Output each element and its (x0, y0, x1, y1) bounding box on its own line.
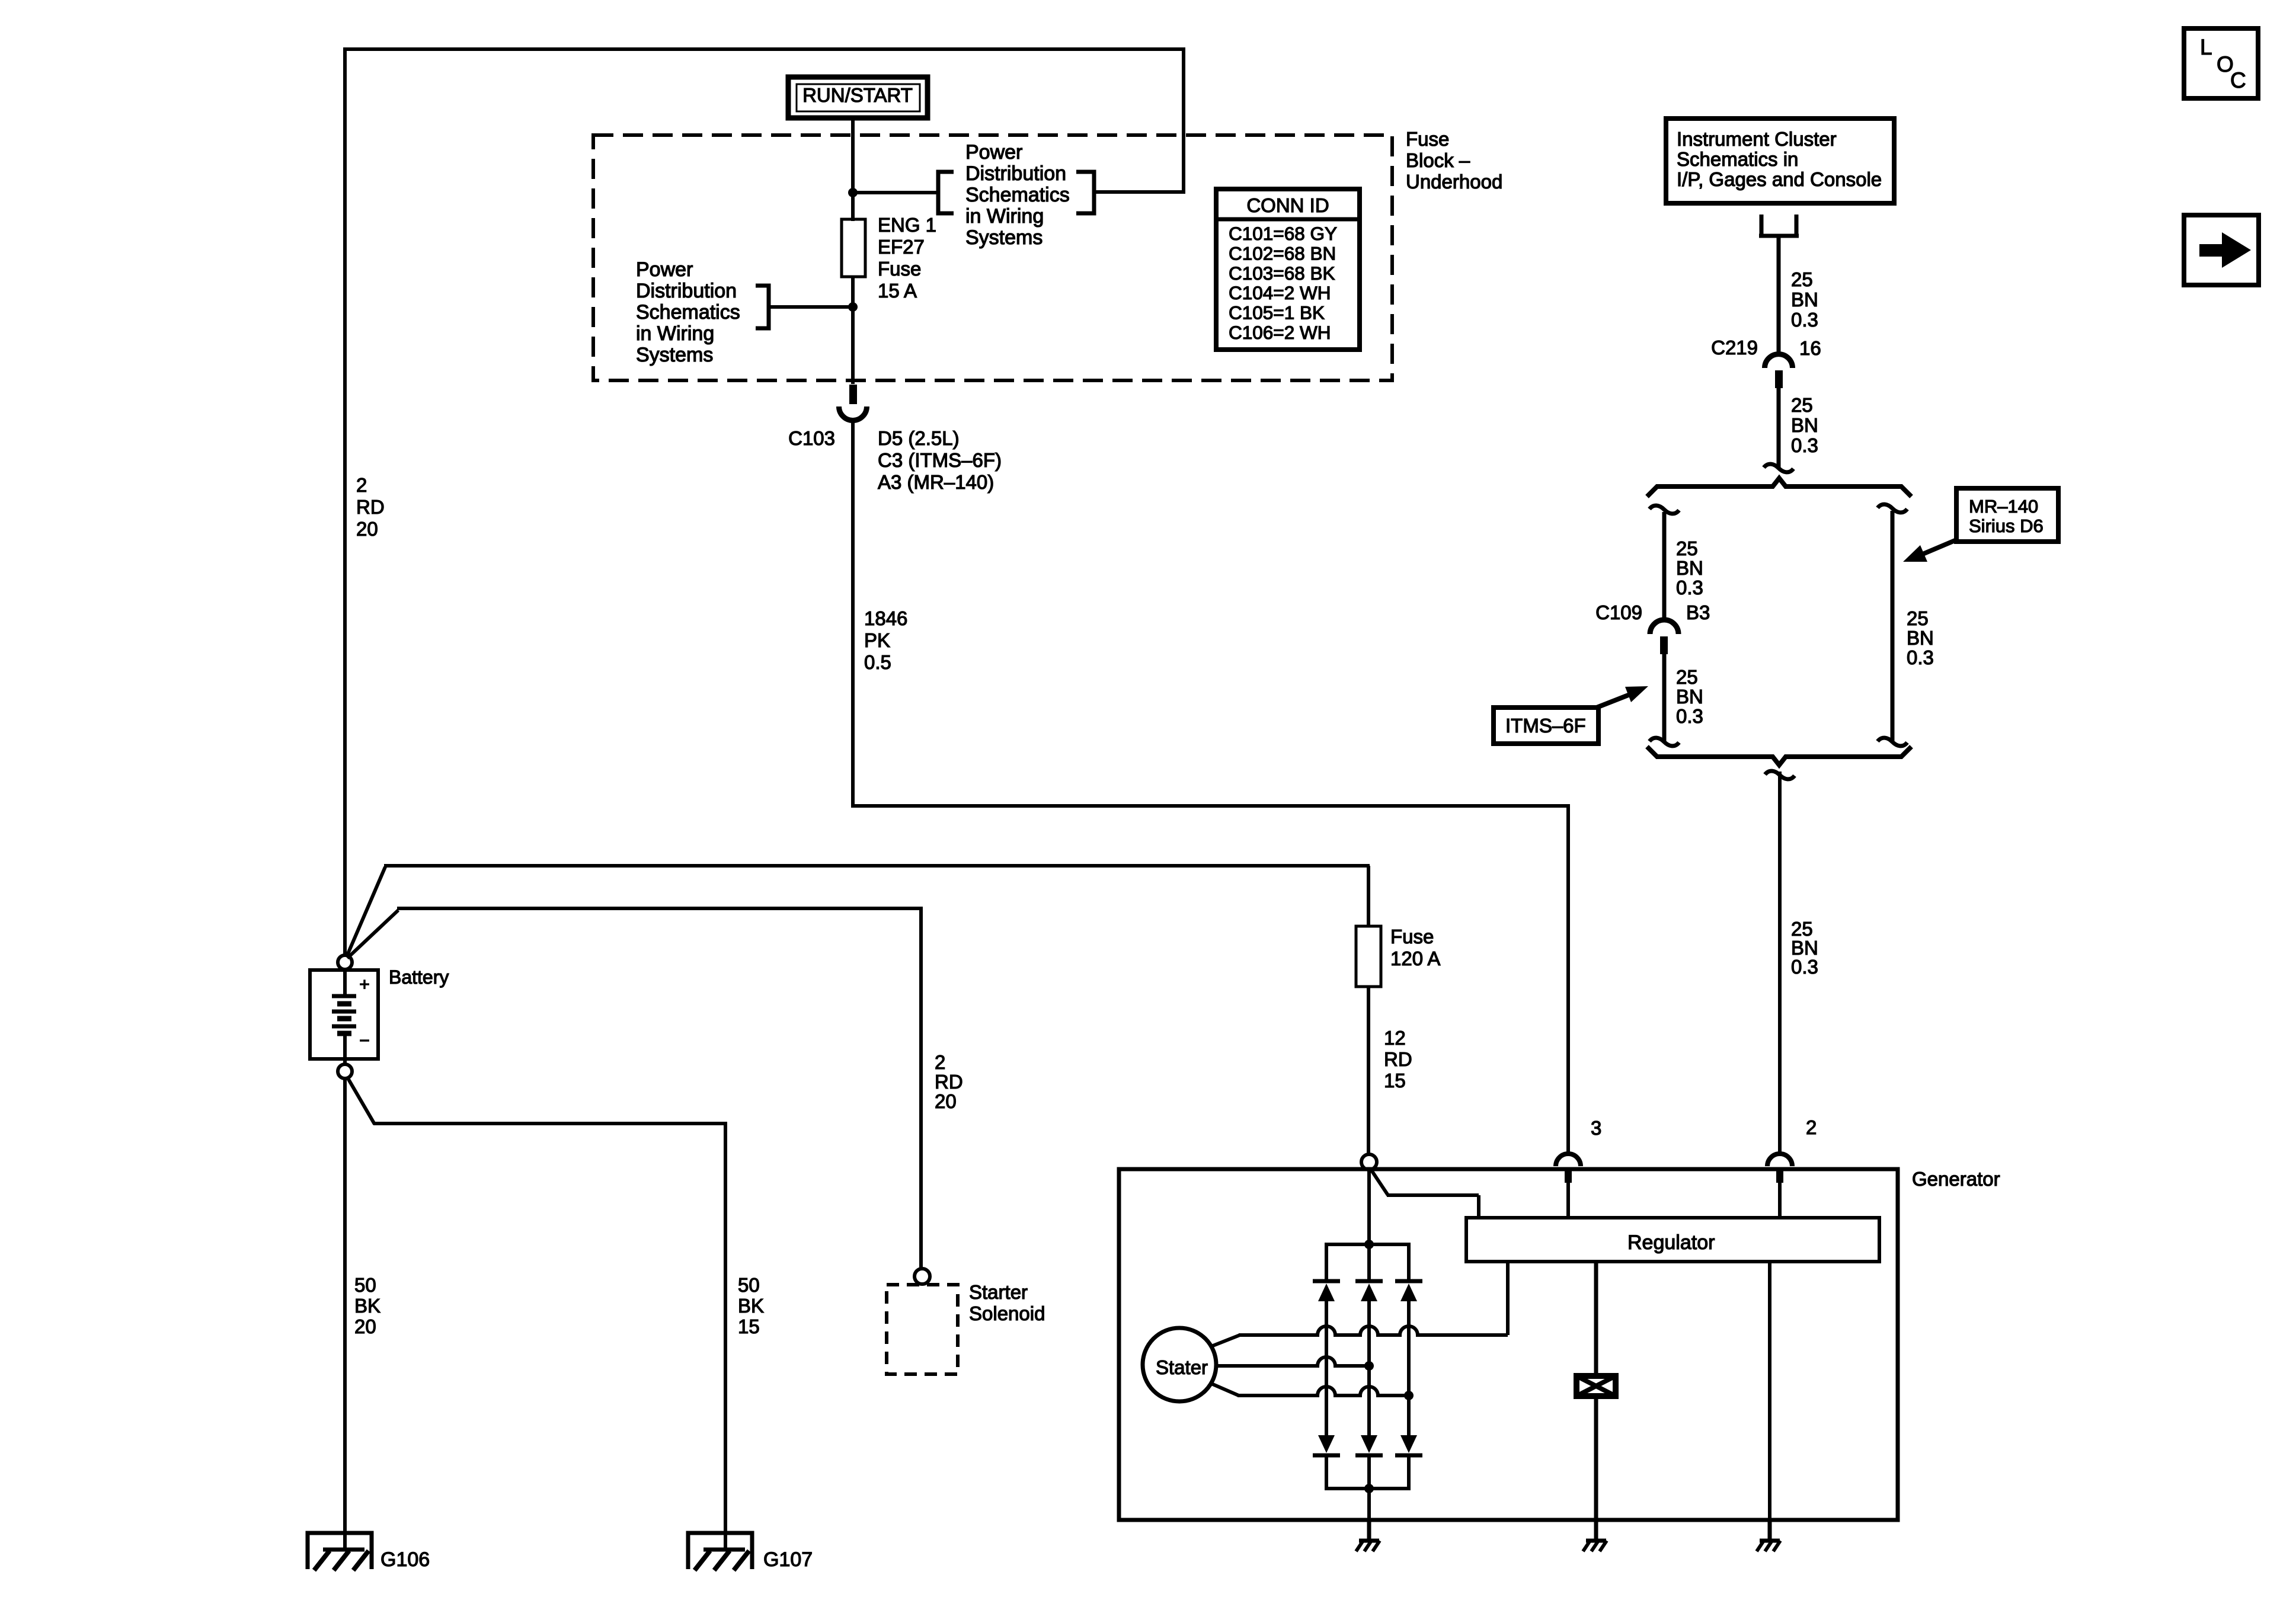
connector pin 3 socket arc (1556, 1154, 1581, 1166)
field coil (slip ring) symbol (1576, 1376, 1616, 1396)
svg-text:0.5: 0.5 (864, 651, 891, 673)
splice hook below bottom brace (1765, 771, 1795, 779)
svg-text:RD: RD (935, 1071, 963, 1093)
svg-text:C102=68 BN: C102=68 BN (1229, 242, 1336, 264)
wire - harness to generator pin 2 (1778, 772, 1782, 1155)
box Instrument Cluster Schematics (1666, 119, 1894, 203)
label Instrument Cluster Schematics in I/P, Gages and Console (1677, 128, 1882, 190)
svg-text:MR–140: MR–140 (1969, 496, 2038, 517)
wire - RUN/START drop into fuse block (851, 118, 855, 221)
svg-text:Schematics: Schematics (636, 301, 740, 324)
label 1846 PK 0.5 (864, 607, 907, 673)
svg-text:Fuse: Fuse (1390, 926, 1434, 948)
svg-text:Instrument Cluster: Instrument Cluster (1677, 128, 1837, 150)
svg-text:0.3: 0.3 (1676, 577, 1703, 598)
svg-text:16: 16 (1799, 337, 1821, 359)
rectifier top bus (1326, 1244, 1409, 1279)
battery box (310, 970, 378, 1059)
svg-text:0.3: 0.3 (1791, 956, 1818, 978)
wire - through fuse to lower junction (851, 277, 855, 384)
svg-text:A3 (MR–140): A3 (MR–140) (878, 471, 994, 493)
wire - C219 to harness brace (1777, 388, 1781, 469)
connector pin 2 pin (1776, 1169, 1783, 1183)
connector C219 socket arc (1765, 354, 1793, 368)
svg-text:Fuse: Fuse (1406, 128, 1449, 150)
splice hook right branch top (1878, 504, 1907, 513)
label RUN/START (802, 84, 913, 106)
svg-text:12: 12 (1384, 1027, 1406, 1049)
svg-text:Regulator: Regulator (1627, 1231, 1715, 1254)
svg-text:Power: Power (636, 258, 693, 281)
switch RUN/START outer box (788, 77, 928, 118)
diode bottom left (1313, 1435, 1340, 1455)
svg-text:Schematics in: Schematics in (1677, 148, 1798, 170)
wire - top feed bus from battery to RUN/START branch (343, 47, 1185, 51)
label Fuse Block - Underhood (1406, 128, 1502, 193)
wire left branch upper (25 BN 0.3) (1662, 512, 1667, 620)
svg-text:Underhood: Underhood (1406, 171, 1502, 193)
svg-text:C103=68 BK: C103=68 BK (1229, 263, 1335, 284)
label CONN ID (1246, 194, 1329, 216)
label C109 (1595, 601, 1642, 623)
svg-text:G107: G107 (763, 1548, 813, 1571)
label 25 BN 0.3 (below C219) (1791, 394, 1818, 456)
diode top left (1313, 1281, 1340, 1301)
wire - battery box to negative terminal (343, 1059, 347, 1065)
svg-text:Generator: Generator (1912, 1168, 2000, 1190)
svg-text:BN: BN (1907, 627, 1934, 649)
label 25 BN 0.3 (right branch) (1907, 607, 1934, 668)
regulator box (1466, 1218, 1879, 1262)
node - junction at second power distribution tap (848, 302, 858, 312)
bracket - power distribution (right) (1076, 172, 1094, 213)
fuse 120 A body (1356, 926, 1381, 987)
svg-text:C219: C219 (1711, 337, 1758, 359)
label 12 RD 15 (1384, 1027, 1412, 1092)
connector C109 pin (1660, 636, 1668, 654)
svg-text:L: L (2200, 35, 2212, 59)
connector C219 pin (1775, 370, 1783, 388)
connector C109 socket arc (1650, 620, 1678, 634)
stator circle (1143, 1328, 1216, 1401)
wire - phase A to regulator (1506, 1260, 1510, 1335)
svg-text:C3 (ITMS–6F): C3 (ITMS–6F) (878, 449, 1002, 471)
wire - drop to generator pin 3 (1566, 806, 1570, 1155)
wire pin 2 to regulator (1778, 1183, 1782, 1219)
svg-text:Power: Power (965, 141, 1022, 164)
label 25 BN 0.3 (left branch lower) (1676, 666, 1703, 727)
svg-text:15 A: 15 A (878, 280, 917, 302)
legend arrow box (2184, 215, 2259, 285)
svg-text:3: 3 (1591, 1117, 1601, 1139)
label C219 (1711, 337, 1758, 359)
svg-text:0.3: 0.3 (1907, 646, 1934, 668)
bracket - power distribution (left) (938, 172, 954, 213)
label 50 BK 15 (738, 1274, 764, 1337)
box MR-140 Sirius D6 (1956, 488, 2058, 542)
connector pin 2 socket arc (1767, 1154, 1792, 1166)
svg-text:50: 50 (354, 1274, 376, 1296)
connector C103 pin (849, 385, 857, 404)
label connector id rows (1229, 223, 1337, 343)
svg-text:20: 20 (356, 518, 378, 540)
label ITMS-6F (1505, 715, 1586, 737)
svg-text:BN: BN (1676, 557, 1703, 579)
svg-text:Sirius D6: Sirius D6 (1969, 516, 2044, 536)
svg-text:BK: BK (738, 1295, 764, 1317)
ground G106 (308, 1533, 372, 1570)
battery negative terminal eyelet (338, 1064, 352, 1078)
label Battery (389, 966, 449, 988)
label pin 16 (1799, 337, 1821, 359)
legend letter L (2200, 35, 2212, 59)
svg-text:Stater: Stater (1156, 1356, 1208, 1378)
label Fuse 120 A (1390, 926, 1440, 969)
svg-text:0.3: 0.3 (1791, 309, 1818, 331)
arrow from MR-140 box to right branch (1903, 540, 1956, 562)
wire - regulator right leg to case ground (1768, 1262, 1771, 1523)
svg-text:D5 (2.5L): D5 (2.5L) (878, 427, 960, 449)
svg-text:C109: C109 (1595, 601, 1642, 623)
wire - feed down to starter solenoid (919, 907, 923, 1269)
svg-text:25: 25 (1907, 607, 1929, 629)
splice hook left branch bottom (1649, 738, 1679, 746)
svg-text:1846: 1846 (864, 607, 907, 629)
svg-text:120 A: 120 A (1390, 948, 1440, 969)
svg-text:−: − (359, 1031, 370, 1051)
label - Power Distribution Schematics in Wiring Systems (left note) (636, 258, 740, 366)
wire pin 3 to regulator (1566, 1183, 1570, 1219)
starter solenoid terminal eyelet (914, 1269, 930, 1284)
fuse ENG 1 EF27 15A body (842, 219, 865, 277)
wire - 120A fuse to generator eyelet (12 RD 15) (1367, 987, 1370, 1155)
label G106 (380, 1548, 430, 1571)
svg-text:50: 50 (738, 1274, 760, 1296)
svg-text:15: 15 (1384, 1070, 1406, 1092)
wire - second bracket to fuse wire (769, 305, 853, 309)
svg-text:Systems: Systems (965, 226, 1043, 249)
svg-text:20: 20 (935, 1090, 957, 1112)
label Regulator (1627, 1231, 1715, 1254)
svg-text:Block –: Block – (1406, 149, 1470, 171)
connector exit tab below instrument cluster (1759, 215, 1799, 236)
node - junction at power distribution tap (848, 188, 858, 197)
svg-text:25: 25 (1676, 666, 1698, 688)
wire - feed down to 120A fuse (1367, 866, 1370, 926)
svg-text:2: 2 (1806, 1116, 1817, 1138)
wire - eyelet down to rectifier top bus (1367, 1170, 1371, 1246)
connector pin 3 pin (1565, 1169, 1572, 1183)
svg-text:B3: B3 (1686, 601, 1710, 623)
legend arrow (2199, 232, 2251, 268)
diode bottom middle (1355, 1435, 1383, 1455)
label - Power Distribution Schematics in Wiring Systems (right note) (965, 141, 1070, 249)
svg-text:Starter: Starter (969, 1281, 1028, 1303)
table CONN ID header rule (1216, 217, 1360, 222)
label - 2 RD 20 (battery feed) (356, 474, 385, 540)
wire - battery negative branch to G107 (347, 1077, 727, 1124)
label pin 2 (1806, 1116, 1817, 1138)
arrow from ITMS-6F box to left branch (1597, 686, 1648, 708)
svg-text:Solenoid: Solenoid (969, 1302, 1045, 1324)
svg-text:20: 20 (354, 1315, 376, 1337)
svg-text:in Wiring: in Wiring (636, 322, 714, 345)
label C103 cavities D5 C3 A3 (878, 427, 1002, 493)
splice hook left branch top (1649, 505, 1679, 514)
ground - rectifier (1356, 1521, 1380, 1551)
label Generator (1912, 1168, 2000, 1190)
label battery - polarity (359, 1031, 370, 1051)
connector C103 socket arc (839, 406, 867, 421)
wire - left column through windings (1325, 1301, 1328, 1435)
ground - field (1583, 1521, 1607, 1551)
svg-text:+: + (359, 975, 370, 994)
svg-text:C106=2 WH: C106=2 WH (1229, 322, 1331, 343)
wire - battery negative to G106 (343, 1078, 347, 1550)
svg-text:EF27: EF27 (878, 236, 925, 258)
fuse block - underhood dashed box (593, 135, 1392, 380)
wire 1846 PK 0.5 horizontal run (853, 804, 1570, 808)
svg-text:BK: BK (354, 1295, 380, 1317)
svg-text:RUN/START: RUN/START (802, 84, 913, 106)
splice hook right branch bottom (1878, 738, 1907, 746)
svg-text:0.3: 0.3 (1791, 434, 1818, 456)
label cavity B3 (1686, 601, 1710, 623)
label G107 (763, 1548, 813, 1571)
ground G107 (688, 1533, 752, 1570)
svg-text:C104=2 WH: C104=2 WH (1229, 282, 1331, 303)
node - bottom bus junction (1364, 1484, 1374, 1493)
svg-text:0.3: 0.3 (1676, 705, 1703, 727)
diode top right (1395, 1281, 1422, 1301)
battery positive terminal eyelet (338, 955, 352, 969)
svg-text:C105=1 BK: C105=1 BK (1229, 302, 1325, 324)
label 25 BN 0.3 (left branch upper) (1676, 537, 1703, 598)
label battery + polarity (359, 975, 370, 994)
wire - eyelet to regulator (B+ sense) (1370, 1169, 1479, 1219)
wire - junction to left bracket of power distribution note (853, 191, 938, 194)
wire right branch (25 BN 0.3) (1891, 511, 1895, 741)
svg-text:15: 15 (738, 1315, 760, 1337)
wire - field coil to case ground (1594, 1396, 1598, 1523)
wire left branch lower (1662, 654, 1667, 741)
diode top middle (1355, 1281, 1383, 1301)
wire - left vertical battery feed (2 RD 20) (343, 47, 347, 956)
harness brace (bottom) (1647, 747, 1911, 765)
svg-text:RD: RD (356, 496, 385, 518)
svg-text:2: 2 (935, 1051, 945, 1073)
battery internal plates (332, 970, 356, 1059)
label 50 BK 20 (354, 1274, 380, 1337)
node - phase C junction (1404, 1391, 1414, 1400)
box ITMS-6F (1494, 708, 1598, 744)
legend LOC box (2184, 28, 2258, 98)
wire - instrument cluster to C219 (1777, 236, 1781, 356)
svg-text:C101=68 GY: C101=68 GY (1229, 223, 1337, 244)
wire - middle column through windings (1367, 1301, 1371, 1435)
harness brace (top) (1647, 478, 1911, 497)
svg-text:Battery: Battery (389, 966, 449, 988)
wire - right column through windings (1407, 1301, 1411, 1435)
svg-text:Fuse: Fuse (878, 258, 921, 280)
svg-text:G106: G106 (380, 1548, 430, 1571)
svg-text:CONN ID: CONN ID (1246, 194, 1329, 216)
svg-text:ENG 1: ENG 1 (878, 214, 936, 236)
svg-text:25: 25 (1791, 394, 1813, 416)
label 25 BN 0.3 (above C219) (1791, 268, 1818, 331)
generator box (1119, 1169, 1898, 1520)
svg-text:BN: BN (1791, 289, 1818, 311)
wire - battery positive to fuse 120A feed (347, 866, 1370, 956)
wire - right vertical drop to power distribution bracket (1182, 47, 1185, 194)
ground - regulator (1757, 1521, 1780, 1551)
stator phase B lead (1216, 1357, 1369, 1366)
svg-text:C103: C103 (788, 427, 835, 449)
splice hook at harness top (1764, 464, 1793, 472)
svg-text:C: C (2230, 68, 2246, 92)
bracket - power distribution 2 (right bracket) (756, 286, 769, 328)
label MR-140 Sirius D6 (1969, 496, 2044, 536)
svg-text:Systems: Systems (636, 344, 713, 366)
rectifier bottom bus (1326, 1457, 1409, 1489)
wire - battery positive to starter solenoid feed (347, 908, 922, 958)
wire 1846 PK 0.5 vertical (851, 420, 855, 808)
starter solenoid dashed box (887, 1285, 958, 1374)
wire - regulator to field coil (1594, 1262, 1598, 1376)
wire - middle column upper (1367, 1244, 1371, 1279)
svg-text:BN: BN (1676, 686, 1703, 708)
table CONN ID box (1216, 189, 1360, 350)
wire - bracket to vertical feed (1094, 190, 1184, 194)
label 2 RD 20 (starter solenoid) (935, 1051, 963, 1112)
stator phase C lead (1211, 1384, 1409, 1395)
legend letter C (2230, 68, 2246, 92)
svg-text:BN: BN (1791, 414, 1818, 436)
diode bottom right (1395, 1435, 1422, 1455)
svg-text:25: 25 (1676, 537, 1698, 559)
svg-text:Distribution: Distribution (636, 280, 737, 302)
label 25 BN 0.3 (to pin 2) (1791, 918, 1818, 978)
wire - middle column lower to case ground (1367, 1457, 1371, 1523)
svg-text:RD: RD (1384, 1048, 1412, 1070)
node - top bus junction (1364, 1240, 1374, 1249)
svg-text:Schematics: Schematics (965, 184, 1070, 206)
svg-text:2: 2 (356, 474, 367, 496)
svg-text:I/P, Gages and Console: I/P, Gages and Console (1677, 168, 1882, 190)
svg-text:25: 25 (1791, 268, 1813, 290)
legend letter O (2217, 52, 2234, 76)
wire - vertical down to G107 (724, 1122, 727, 1550)
node - phase B junction (1364, 1361, 1374, 1371)
svg-text:Distribution: Distribution (965, 162, 1066, 185)
generator B+ eyelet terminal (1361, 1154, 1377, 1170)
stator phase A lead (1211, 1326, 1508, 1346)
label ENG 1 EF27 Fuse 15 A (878, 214, 936, 302)
svg-text:in Wiring: in Wiring (965, 205, 1044, 228)
svg-text:PK: PK (864, 629, 890, 651)
label C103 (788, 427, 835, 449)
switch RUN/START inner box (797, 84, 920, 111)
svg-text:ITMS–6F: ITMS–6F (1505, 715, 1586, 737)
label Stater (1156, 1356, 1208, 1378)
label Starter Solenoid (969, 1281, 1045, 1324)
label pin 3 (1591, 1117, 1601, 1139)
